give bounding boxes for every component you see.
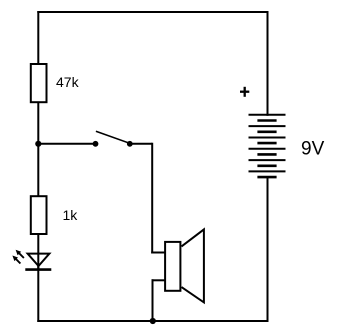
wire: top rail: [37, 11, 268, 13]
switch S1 left contact: [93, 141, 99, 147]
battery BT1 plate 8 short: [257, 153, 276, 156]
wire: right rail from top corner to battery +: [267, 11, 269, 116]
LED D1 emission arrow 1: [16, 250, 24, 258]
LED D1 triangle: [28, 254, 50, 266]
battery BT1 plate 7 long: [249, 148, 286, 150]
wire: right rail from battery - to bottom corner: [267, 176, 269, 322]
svg-text:47k: 47k: [56, 74, 80, 90]
wire: switch right contact to speaker branch: [130, 143, 152, 145]
label: battery + polarity: [240, 87, 249, 97]
wire: vertical down to speaker upper terminal: [151, 143, 153, 254]
resistor R2 1k: [31, 196, 47, 234]
battery BT1 plate 1 long: [249, 114, 286, 116]
svg-text:1k: 1k: [63, 207, 79, 223]
wire: vertical down from speaker to bottom rail: [152, 279, 154, 321]
speaker LS1 driver body: [165, 242, 180, 291]
junction: node on bottom rail: [150, 318, 156, 324]
battery BT1 plate 10 short: [257, 165, 276, 168]
svg-text:9V: 9V: [301, 139, 325, 160]
wire: left rail junction to R2: [37, 144, 39, 197]
battery BT1 plate 12 short: [257, 176, 276, 179]
battery BT1 plate 6 short: [257, 142, 276, 145]
wire: left rail from top corner to R1: [37, 11, 39, 65]
wire: into speaker upper terminal: [151, 252, 165, 254]
LED D1 emission arrow 2: [12, 256, 20, 264]
wire: junction to switch left contact: [38, 143, 95, 145]
wire: left rail from R1 to switch junction: [37, 102, 39, 145]
switch S1 right contact: [127, 141, 133, 147]
wire: bottom rail: [37, 320, 268, 322]
battery BT1 plate 11 long: [249, 170, 286, 172]
battery BT1 plate 2 short: [257, 119, 276, 122]
switch S1 lever (open): [96, 131, 130, 143]
battery BT1 plate 3 long: [249, 125, 286, 127]
resistor R1 47k: [31, 64, 47, 102]
wire: LED cathode to bottom rail: [37, 265, 39, 322]
battery BT1 plate 5 long: [249, 137, 286, 139]
battery BT1 plate 9 long: [249, 159, 286, 161]
speaker LS1 cone: [182, 229, 204, 302]
junction: node at left rail / switch branch: [35, 141, 41, 147]
wire: R2 through LED to bottom: [37, 233, 39, 270]
wire: speaker lower terminal: [152, 279, 166, 281]
battery BT1 plate 4 short: [257, 131, 276, 134]
LED D1 cathode bar: [25, 268, 51, 271]
